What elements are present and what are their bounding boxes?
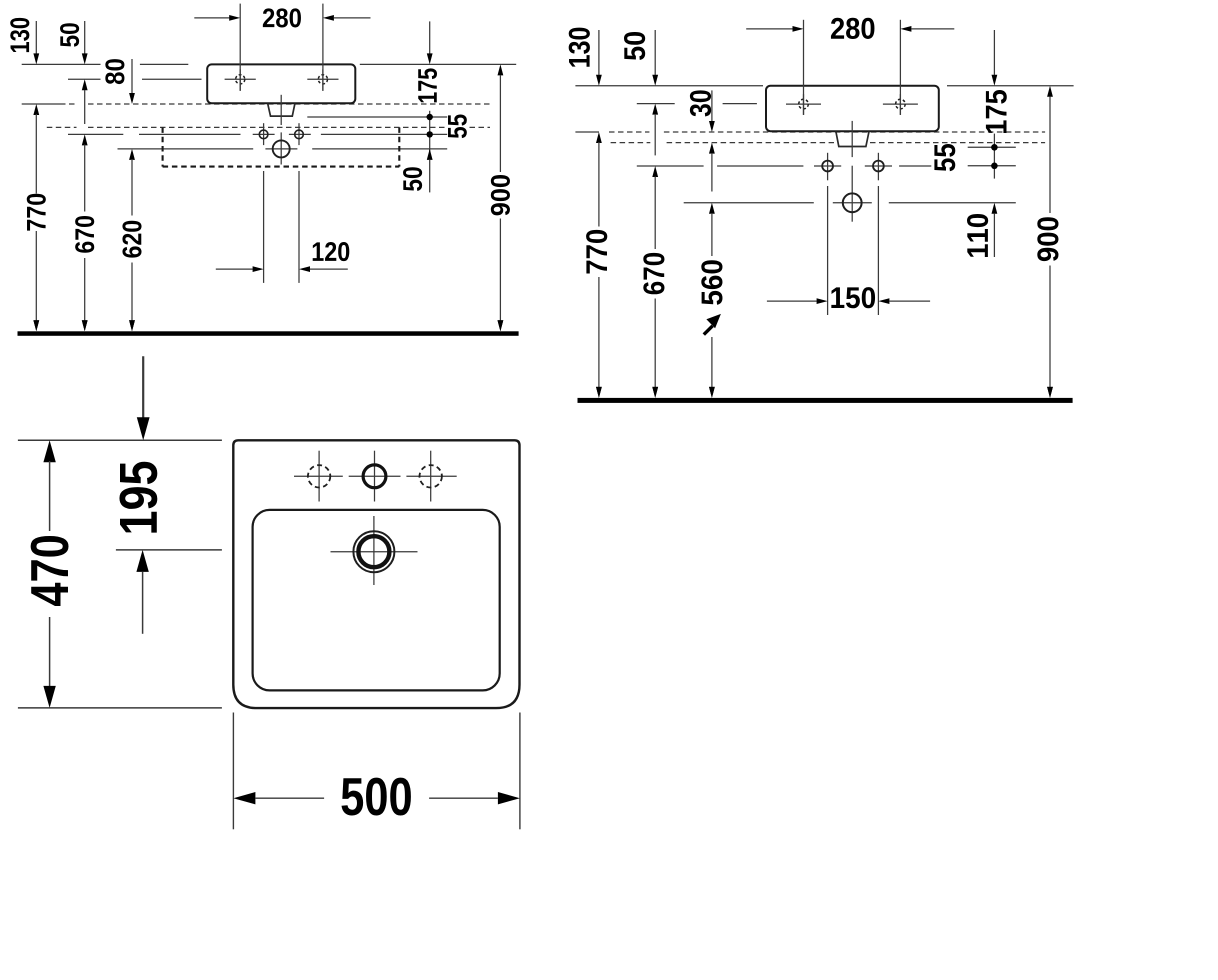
v2 siphon funnel: [836, 132, 869, 147]
v1 second dashed level line: [47, 126, 77, 128]
v3 right optional tap hole: [406, 475, 456, 477]
v2 left tap hole cross: [786, 103, 821, 105]
dim 120 v1: [263, 171, 265, 283]
v3 top reference line: [18, 439, 222, 441]
label 130 v2: [569, 28, 590, 67]
label 900 v1: [491, 175, 510, 215]
label 470 v3: [31, 536, 69, 606]
v2 right tap hole cross: [883, 103, 918, 105]
label 175 v2: [986, 90, 1007, 133]
v3 centre tap hole: [349, 475, 401, 477]
v2 basin-bottom dashed line (770): [609, 131, 649, 133]
v1 outlet level line y=117 (175): [307, 116, 447, 118]
label 195 v3: [119, 462, 157, 533]
dim 175 v2: [993, 30, 995, 75]
label 670 v2: [643, 253, 664, 294]
label 110 v2: [967, 214, 988, 257]
dim 175 v1: [429, 21, 431, 53]
label 80 v1: [105, 59, 124, 84]
label 50 v1: [60, 23, 79, 47]
v2 right valve circle: [865, 165, 892, 167]
label 55 v1: [448, 115, 467, 139]
v2 drain level line (560): [684, 202, 814, 204]
v2 basin-bottom solid tick: [575, 131, 599, 133]
v2 dot outlet line: [968, 146, 1016, 148]
v1 basin outline: [207, 64, 355, 103]
label 175 v1: [418, 68, 437, 102]
label 770 v1: [27, 194, 46, 231]
v2 basin outline: [766, 86, 939, 132]
dim 620 line v1: [129, 149, 135, 160]
dim 30 arrows v2: [711, 90, 713, 121]
label 150 v2: [831, 287, 875, 308]
v3 inner bowl outline: [253, 510, 500, 691]
v2 valve level line (670): [637, 165, 704, 167]
v1 drain level line y=148.9 (620): [118, 148, 254, 150]
v3 projection arrow from view1: [142, 356, 144, 421]
v2 top-edge reference line y=85.7: [575, 85, 763, 87]
dim 900 v2: [1047, 86, 1053, 97]
v2 second dashed line: [611, 142, 651, 144]
label 500 v3: [341, 778, 410, 816]
v1 dot outlet 175: [427, 114, 433, 120]
dim 50 arrow v1: [84, 21, 86, 54]
label 50 right v1: [403, 167, 422, 191]
label 120 v1: [313, 242, 350, 261]
label 670 v1: [75, 216, 94, 253]
v1 left tap hole cross: [225, 78, 256, 80]
v1 right valve circle: [289, 133, 311, 135]
dim 470 v3: [43, 440, 55, 462]
dim 280 v2: [803, 20, 805, 115]
v3 bottom reference line: [18, 707, 222, 709]
dim 560 line v2: [709, 203, 715, 214]
v3 basin outer outline: [233, 440, 519, 708]
v2 floor line: [578, 398, 1073, 403]
dim 150 v2: [827, 186, 829, 315]
v1 waste outlet circle: [273, 140, 290, 157]
label 50 v2: [624, 32, 645, 60]
v1 left valve circle: [253, 133, 275, 135]
label 620 v1: [122, 221, 141, 258]
dim 900 v1: [498, 64, 504, 75]
v1 basin-bottom level solid tick: [22, 103, 60, 105]
v1 floor line: [18, 331, 519, 336]
v1 dashed installation box: [162, 127, 164, 166]
dim 670 line v2: [652, 166, 658, 177]
v3 left optional tap hole: [294, 475, 343, 477]
dim 130 arrow v2: [598, 30, 600, 75]
label 30 v2: [690, 90, 711, 116]
dim 770 line v1: [33, 104, 39, 115]
dim 130 arrow v1: [35, 21, 37, 54]
dim 280 v1: [239, 4, 241, 91]
label 130 v1: [10, 18, 29, 52]
v2 waste outlet circle: [843, 193, 862, 212]
v1 central axis line: [280, 95, 282, 125]
dim 195 v3: [116, 549, 222, 551]
label 770 v2: [586, 230, 607, 274]
v2 left valve circle: [814, 165, 841, 167]
v3 drain: [331, 551, 418, 553]
v2 dot outlet 175: [991, 144, 998, 151]
label 280 v1: [263, 8, 301, 27]
label 55 v2: [934, 144, 955, 171]
label 900 v2: [1037, 217, 1058, 261]
v2 adjustable-height pointer arrow: [704, 326, 713, 335]
v1 tap-hole level line y=79.2: [68, 78, 101, 80]
dim 670 line v1: [82, 134, 88, 145]
v1 siphon funnel: [268, 104, 295, 117]
v1 connection dots: [429, 111, 431, 152]
v2 tap-hole level line: [637, 103, 675, 105]
v1 dot supply 670: [427, 131, 433, 137]
v1 right tap hole cross: [307, 78, 338, 80]
dim 50 arrow v2: [654, 30, 656, 75]
v2 dot supply 670: [991, 163, 998, 170]
label 560 v2: [701, 260, 722, 305]
v1 top-edge reference line y=64.4: [22, 63, 101, 65]
dim 50 right v1: [427, 149, 433, 160]
dim 500 v3: [232, 713, 234, 830]
dim 110 v2: [992, 203, 998, 214]
v2 connection dots: [993, 134, 995, 179]
v2 dot supply line: [968, 165, 1016, 167]
v2 central axis line: [851, 121, 853, 157]
dim 770 line v2: [596, 132, 602, 143]
v1 valve level line y=134.4 (670): [68, 133, 123, 135]
label 280 v2: [831, 18, 874, 39]
dim 80 arrow v1: [131, 59, 133, 93]
v1 basin-bottom dashed level line (770): [60, 103, 77, 105]
